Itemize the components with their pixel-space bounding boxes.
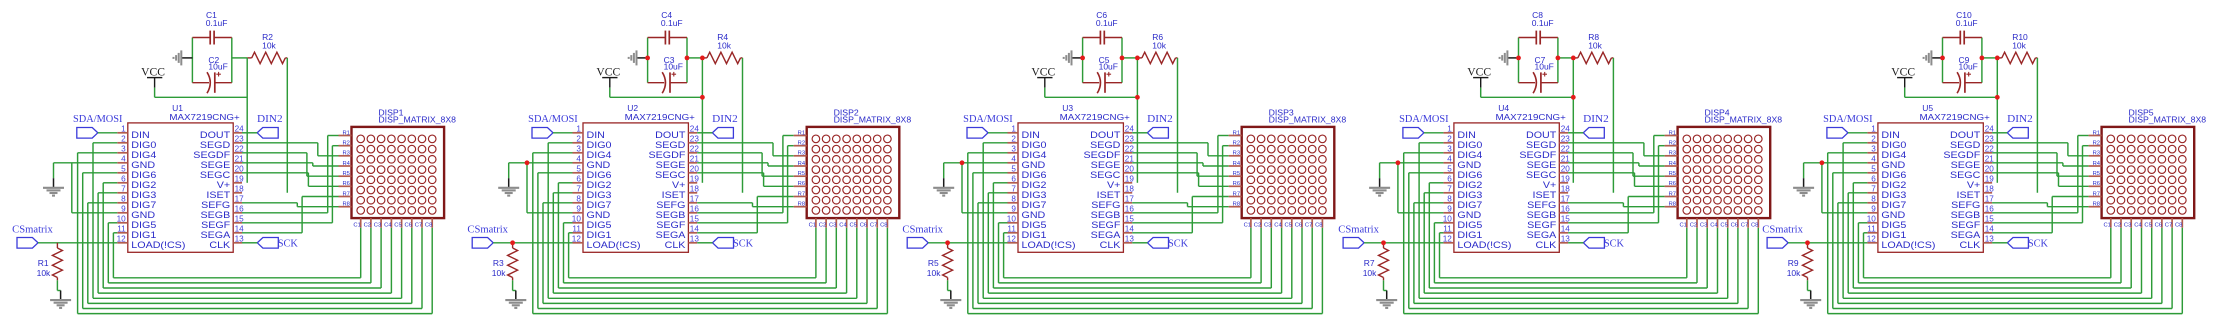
- svg-text:LOAD(!CS): LOAD(!CS): [1457, 240, 1511, 251]
- wire CSmatrix to LOAD(!CS) pin 12: [38, 242, 117, 244]
- junction dots: [1805, 56, 2000, 246]
- svg-text:DIN2: DIN2: [712, 114, 738, 125]
- net flag CSmatrix: [12, 225, 53, 248]
- junction dots: [510, 56, 705, 246]
- svg-text:3: 3: [576, 145, 581, 154]
- svg-text:R4: R4: [1669, 161, 1677, 167]
- svg-text:R5: R5: [1669, 171, 1676, 177]
- IC U2 right pins 24-13 stubs, numbers, names: [649, 125, 700, 251]
- wire CLK pin 13 to SCK: [697, 242, 712, 244]
- capacitor C7 10uF (polarized): [1519, 55, 1558, 93]
- svg-text:C2: C2: [1690, 222, 1697, 228]
- svg-text:DIN2: DIN2: [2007, 114, 2033, 125]
- VCC power symbol: [1031, 66, 1055, 87]
- svg-text:10k: 10k: [37, 268, 51, 278]
- wire CSmatrix to LOAD(!CS) pin 12: [1364, 242, 1443, 244]
- op IC U2 MAX7219CNG+ body: [583, 103, 695, 252]
- decoupling loop wires (VCC/GND) for C10/C9: [1943, 38, 1982, 83]
- svg-text:R3: R3: [493, 258, 504, 268]
- wire DIG5 pin 10 to matrix column: [1858, 223, 2121, 283]
- wire SEGDF to matrix row: [242, 153, 339, 176]
- wire DIG0 pin 2 to matrix column: [983, 143, 1292, 298]
- svg-text:11: 11: [1867, 225, 1876, 234]
- svg-text:1: 1: [1011, 125, 1016, 134]
- wire DOUT pin 24 to DIN2: [1132, 132, 1147, 134]
- svg-text:DIN2: DIN2: [257, 114, 283, 125]
- svg-text:SCK: SCK: [1168, 239, 1189, 250]
- VCC power symbol: [141, 66, 165, 87]
- svg-text:SDA/MOSI: SDA/MOSI: [528, 114, 578, 125]
- svg-text:C3: C3: [374, 222, 381, 228]
- svg-text:SCK: SCK: [733, 239, 754, 250]
- wire SEGDF to matrix row: [1132, 153, 1229, 176]
- net flag DIN2: [257, 114, 283, 138]
- wire SEGE to matrix row: [1568, 163, 1665, 166]
- svg-text:R9: R9: [1788, 258, 1799, 268]
- capacitor C2 10uF (polarized): [192, 55, 231, 93]
- ground (top, beside decoupling caps): [1064, 50, 1083, 65]
- wire V+ rail down to pin 19: [1996, 58, 1998, 183]
- wire DIG3 pin 7 to matrix column: [1424, 193, 1717, 293]
- capacitor C8 0.1uF: [1519, 10, 1558, 44]
- ground (top, beside decoupling caps): [629, 50, 648, 65]
- svg-text:DIN2: DIN2: [1147, 114, 1173, 125]
- svg-text:VCC: VCC: [1031, 66, 1055, 78]
- display DISP1 row pins R1-R8: [339, 130, 352, 207]
- wire R3 to ground: [512, 280, 514, 290]
- svg-text:R8: R8: [2093, 202, 2100, 208]
- display DISP4 DISP_MATRIX_8X8 body: [1678, 107, 1783, 218]
- svg-text:2: 2: [576, 135, 581, 144]
- resistor R5 10k (CS pulldown): [927, 243, 953, 280]
- wire DIG2 pin 6 to matrix column: [558, 183, 836, 288]
- wire DOUT pin 24 to DIN2: [242, 132, 257, 134]
- svg-text:C7: C7: [870, 222, 877, 228]
- wire DIG1 pin 11 to matrix column: [1004, 228, 1251, 278]
- svg-text:DIN2: DIN2: [1583, 114, 1609, 125]
- op IC U5 MAX7219CNG+ body: [1878, 103, 1990, 252]
- wire SEGE to matrix row: [1992, 163, 2089, 166]
- svg-text:MAX7219CNG+: MAX7219CNG+: [1060, 112, 1130, 122]
- wire CLK pin 13 to SCK: [242, 242, 257, 244]
- svg-text:8: 8: [576, 195, 581, 204]
- wire SEGF to matrix row: [697, 146, 794, 223]
- net flag SCK: [257, 238, 298, 250]
- wire DIG7 pin 8 to matrix column: [543, 203, 867, 304]
- svg-text:R7: R7: [1364, 258, 1375, 268]
- svg-text:R7: R7: [1233, 191, 1240, 197]
- wire GND pin 9 tap: [1822, 163, 1868, 213]
- svg-text:C8: C8: [1315, 222, 1322, 228]
- svg-text:R2: R2: [1233, 141, 1240, 147]
- wire ISET down to pin 18: [2036, 58, 2038, 193]
- resistor R10 10k (ISET): [1982, 32, 2038, 63]
- wire SEGF to matrix row: [1992, 146, 2089, 223]
- svg-text:6: 6: [1447, 175, 1452, 184]
- svg-text:C1: C1: [809, 222, 816, 228]
- wire SEFG to matrix row: [1132, 203, 1229, 207]
- svg-text:R5: R5: [1233, 171, 1240, 177]
- resistor R8 10k (ISET): [1558, 32, 1614, 63]
- svg-text:10: 10: [117, 215, 127, 224]
- wire GND pin 9 tap: [962, 163, 1008, 213]
- wire SDA/MOSI to DIN pin 1: [553, 132, 573, 134]
- svg-text:10k: 10k: [1588, 40, 1602, 50]
- svg-text:10k: 10k: [1152, 40, 1166, 50]
- svg-text:MAX7219CNG+: MAX7219CNG+: [169, 112, 239, 122]
- svg-text:R7: R7: [1669, 191, 1676, 197]
- wire DIG7 pin 8 to matrix column: [978, 203, 1302, 304]
- svg-text:C7: C7: [1305, 222, 1312, 228]
- wire DIG4 pin 3 to matrix column: [533, 153, 888, 314]
- svg-text:0.1uF: 0.1uF: [206, 18, 228, 28]
- svg-text:1: 1: [1447, 125, 1452, 134]
- wire SEGDF to matrix row: [1568, 153, 1665, 176]
- svg-text:8: 8: [1871, 195, 1876, 204]
- wire SEGF to matrix row: [1132, 146, 1229, 223]
- svg-text:7: 7: [576, 185, 581, 194]
- wire CLK pin 13 to SCK: [1568, 242, 1583, 244]
- ground (left of IC): [498, 178, 519, 195]
- svg-text:6: 6: [1871, 175, 1876, 184]
- capacitor C4 0.1uF: [648, 10, 687, 44]
- ground (left of IC): [933, 178, 954, 195]
- svg-text:SDA/MOSI: SDA/MOSI: [1399, 114, 1449, 125]
- svg-text:CLK: CLK: [209, 240, 231, 251]
- svg-text:10k: 10k: [1787, 268, 1801, 278]
- wire DOUT pin 24 to DIN2: [1992, 132, 2007, 134]
- svg-text:R8: R8: [798, 202, 805, 208]
- wire DIG1 pin 11 to matrix column: [1864, 228, 2111, 278]
- wire V+ rail down to pin 19: [1136, 58, 1138, 183]
- svg-text:10: 10: [572, 215, 582, 224]
- svg-text:C8: C8: [425, 222, 432, 228]
- svg-text:10k: 10k: [717, 40, 731, 50]
- svg-text:R3: R3: [342, 151, 349, 157]
- net flag DIN2: [1583, 114, 1609, 138]
- VCC power symbol: [596, 66, 620, 87]
- svg-text:CLK: CLK: [1100, 240, 1122, 251]
- display DISP5 row pins R1-R8: [2089, 130, 2102, 207]
- svg-text:C6: C6: [860, 222, 867, 228]
- wire DIG4 pin 3 to matrix column: [78, 153, 433, 314]
- svg-text:C7: C7: [415, 222, 422, 228]
- svg-text:VCC: VCC: [1891, 66, 1915, 78]
- svg-text:0.1uF: 0.1uF: [1532, 18, 1554, 28]
- svg-text:MAX7219CNG+: MAX7219CNG+: [1496, 112, 1566, 122]
- svg-text:SCK: SCK: [2028, 239, 2049, 250]
- svg-text:4: 4: [1871, 155, 1876, 164]
- svg-text:CLK: CLK: [665, 240, 687, 251]
- wire GND pin 9 tap: [527, 163, 573, 213]
- wire GND pin 4 to ground: [509, 163, 573, 178]
- wire SEGF to matrix row: [242, 146, 339, 223]
- net flag SDA/MOSI: [73, 114, 123, 138]
- svg-text:18: 18: [690, 185, 700, 194]
- net flag SDA/MOSI: [1399, 114, 1449, 138]
- svg-text:6: 6: [121, 175, 126, 184]
- wire SEFG to matrix row: [1992, 203, 2089, 207]
- wire VCC to V+ rail: [1481, 88, 1574, 98]
- resistor R9 10k (CS pulldown): [1787, 243, 1813, 280]
- wire CSmatrix to LOAD(!CS) pin 12: [493, 242, 572, 244]
- IC U3 right pins 24-13 stubs, numbers, names: [1084, 125, 1135, 251]
- svg-text:5: 5: [1871, 165, 1876, 174]
- svg-text:7: 7: [1871, 185, 1876, 194]
- wire DIG6 pin 5 to matrix column: [83, 173, 422, 309]
- svg-text:3: 3: [1447, 145, 1452, 154]
- svg-text:C4: C4: [1710, 222, 1718, 228]
- wire DIG5 pin 10 to matrix column: [999, 223, 1262, 283]
- svg-text:2: 2: [121, 135, 126, 144]
- svg-text:2: 2: [1871, 135, 1876, 144]
- svg-text:R6: R6: [1233, 181, 1240, 187]
- ground (top, beside decoupling caps): [1924, 50, 1943, 65]
- svg-text:C2: C2: [364, 222, 371, 228]
- svg-text:R3: R3: [2093, 151, 2100, 157]
- svg-text:CSmatrix: CSmatrix: [1338, 225, 1379, 236]
- svg-text:1: 1: [1871, 125, 1876, 134]
- svg-text:CLK: CLK: [1536, 240, 1558, 251]
- svg-text:9: 9: [1447, 205, 1452, 214]
- resistor R3 10k (CS pulldown): [492, 243, 518, 280]
- wire VCC to V+ rail: [1905, 88, 1998, 98]
- svg-text:C2: C2: [2114, 222, 2121, 228]
- wire SEGA to matrix row: [1568, 197, 1665, 233]
- net flag DIN2: [1147, 114, 1173, 138]
- svg-text:MAX7219CNG+: MAX7219CNG+: [1920, 112, 1990, 122]
- wire DIG6 pin 5 to matrix column: [1409, 173, 1748, 309]
- wire SDA/MOSI to DIN pin 1: [1424, 132, 1444, 134]
- svg-text:7: 7: [121, 185, 126, 194]
- svg-text:19: 19: [235, 175, 245, 184]
- svg-text:8: 8: [121, 195, 126, 204]
- svg-text:10k: 10k: [262, 40, 276, 50]
- display DISP1 column pins C1-C8: [353, 218, 432, 228]
- capacitor C1 0.1uF: [192, 10, 231, 44]
- resistor R1 10k (CS pulldown): [37, 243, 63, 280]
- svg-text:DISP_MATRIX_8X8: DISP_MATRIX_8X8: [2129, 115, 2207, 125]
- display DISP1 LED circles: [357, 135, 436, 214]
- decoupling loop wires (VCC/GND) for C1/C2: [192, 38, 231, 83]
- svg-text:DISP_MATRIX_8X8: DISP_MATRIX_8X8: [1705, 115, 1783, 125]
- wire SEGE to matrix row: [242, 163, 339, 166]
- wire ISET down to pin 18: [1177, 58, 1179, 193]
- svg-text:10uF: 10uF: [1535, 62, 1554, 72]
- display DISP3 LED circles: [1247, 135, 1326, 214]
- wire SEGE to matrix row: [697, 163, 794, 166]
- svg-text:SCK: SCK: [278, 239, 299, 250]
- svg-text:1: 1: [121, 125, 126, 134]
- wire SEFG to matrix row: [242, 203, 339, 207]
- svg-text:LOAD(!CS): LOAD(!CS): [587, 240, 641, 251]
- svg-text:R1: R1: [1233, 130, 1240, 136]
- svg-text:8: 8: [1447, 195, 1452, 204]
- svg-text:C4: C4: [384, 222, 392, 228]
- display DISP2 LED circles: [812, 135, 891, 214]
- svg-text:R3: R3: [1669, 151, 1676, 157]
- wire SEGC to matrix row: [1132, 173, 1229, 187]
- svg-text:5: 5: [1447, 165, 1452, 174]
- net flag CSmatrix: [1762, 225, 1803, 248]
- wire SEGD to matrix row: [1132, 143, 1229, 156]
- svg-text:C6: C6: [2155, 222, 2162, 228]
- svg-text:SDA/MOSI: SDA/MOSI: [963, 114, 1013, 125]
- svg-text:VCC: VCC: [1467, 66, 1491, 78]
- svg-text:R1: R1: [38, 258, 49, 268]
- wire DIG5 pin 10 to matrix column: [1434, 223, 1697, 283]
- svg-text:C1: C1: [353, 222, 360, 228]
- wire DOUT pin 24 to DIN2: [697, 132, 712, 134]
- display DISP1 DISP_MATRIX_8X8 body: [352, 107, 457, 218]
- svg-text:9: 9: [1011, 205, 1016, 214]
- wire DIG0 pin 2 to matrix column: [1419, 143, 1728, 298]
- svg-text:11: 11: [1007, 225, 1016, 234]
- wire SEGDF to matrix row: [697, 153, 794, 176]
- display DISP3 column pins C1-C8: [1244, 218, 1323, 228]
- display DISP4 column pins C1-C8: [1680, 218, 1759, 228]
- svg-text:8: 8: [1011, 195, 1016, 204]
- svg-text:R7: R7: [2093, 191, 2100, 197]
- svg-text:11: 11: [1443, 225, 1452, 234]
- svg-text:7: 7: [1011, 185, 1016, 194]
- wire DIG6 pin 5 to matrix column: [973, 173, 1312, 309]
- wire DIG3 pin 7 to matrix column: [98, 193, 391, 293]
- wire ISET down to pin 18: [286, 58, 288, 193]
- wire DIG6 pin 5 to matrix column: [1833, 173, 2172, 309]
- wire DIG6 pin 5 to matrix column: [538, 173, 877, 309]
- svg-text:2: 2: [1011, 135, 1016, 144]
- svg-text:18: 18: [235, 185, 245, 194]
- IC U5 left pins 1-12 stubs, numbers, names: [1867, 125, 1936, 251]
- decoupling loop wires (VCC/GND) for C8/C7: [1519, 38, 1558, 83]
- svg-text:C1: C1: [2104, 222, 2111, 228]
- resistor R7 10k (CS pulldown): [1363, 243, 1389, 280]
- svg-text:9: 9: [1871, 205, 1876, 214]
- svg-text:C4: C4: [839, 222, 847, 228]
- svg-text:C8: C8: [2175, 222, 2182, 228]
- wire GND pin 9 tap: [1398, 163, 1444, 213]
- svg-text:5: 5: [1011, 165, 1016, 174]
- display DISP2 DISP_MATRIX_8X8 body: [807, 107, 912, 218]
- wire SEGB to matrix row: [1132, 136, 1229, 213]
- wire GND pin 4 to ground: [944, 163, 1008, 178]
- IC U4 right pins 24-13 stubs, numbers, names: [1519, 125, 1570, 251]
- svg-text:3: 3: [121, 145, 126, 154]
- svg-text:R1: R1: [1669, 130, 1676, 136]
- ground (below CS pulldown): [513, 290, 516, 292]
- net flag SCK: [1148, 238, 1189, 250]
- wire V+ rail down to pin 19: [1572, 58, 1574, 183]
- svg-text:C5: C5: [2144, 222, 2151, 228]
- svg-text:5: 5: [576, 165, 581, 174]
- svg-text:10: 10: [1443, 215, 1453, 224]
- wire R5 to ground: [947, 280, 949, 290]
- svg-text:7: 7: [1447, 185, 1452, 194]
- net flag SDA/MOSI: [963, 114, 1013, 138]
- ground (left of IC): [1793, 178, 1814, 195]
- display DISP4 row pins R1-R8: [1665, 130, 1678, 207]
- svg-text:10k: 10k: [1363, 268, 1377, 278]
- svg-text:5: 5: [121, 165, 126, 174]
- ground (below CS pulldown): [1808, 290, 1811, 292]
- svg-text:12: 12: [572, 235, 582, 244]
- svg-text:R4: R4: [2093, 161, 2101, 167]
- wire SEGDF to matrix row: [1992, 153, 2089, 176]
- svg-text:19: 19: [1985, 175, 1995, 184]
- VCC power symbol: [1467, 66, 1491, 87]
- svg-text:10: 10: [1007, 215, 1017, 224]
- wire SEGA to matrix row: [242, 197, 339, 233]
- ground (left of IC): [1369, 178, 1390, 195]
- display DISP3 DISP_MATRIX_8X8 body: [1242, 107, 1347, 218]
- svg-text:R5: R5: [2093, 171, 2100, 177]
- wire SEGA to matrix row: [1992, 197, 2089, 233]
- svg-text:10uF: 10uF: [1959, 62, 1978, 72]
- wire SEGB to matrix row: [1992, 136, 2089, 213]
- svg-text:R7: R7: [342, 191, 349, 197]
- wire V+ rail down to pin 19: [701, 58, 703, 183]
- svg-text:R4: R4: [342, 161, 350, 167]
- svg-text:C2: C2: [1254, 222, 1261, 228]
- svg-text:SCK: SCK: [1604, 239, 1625, 250]
- svg-text:C5: C5: [850, 222, 857, 228]
- svg-text:R2: R2: [342, 141, 349, 147]
- svg-text:4: 4: [576, 155, 581, 164]
- svg-text:LOAD(!CS): LOAD(!CS): [1881, 240, 1935, 251]
- svg-text:10k: 10k: [927, 268, 941, 278]
- svg-text:11: 11: [572, 225, 581, 234]
- capacitor C9 10uF (polarized): [1943, 55, 1982, 93]
- svg-text:C2: C2: [819, 222, 826, 228]
- wire DOUT pin 24 to DIN2: [1568, 132, 1583, 134]
- wire SDA/MOSI to DIN pin 1: [1848, 132, 1868, 134]
- svg-text:DISP_MATRIX_8X8: DISP_MATRIX_8X8: [1269, 115, 1347, 125]
- svg-text:10: 10: [1867, 215, 1877, 224]
- svg-text:R8: R8: [342, 202, 349, 208]
- display DISP5 column pins C1-C8: [2104, 218, 2183, 228]
- svg-text:SDA/MOSI: SDA/MOSI: [1823, 114, 1873, 125]
- wire DIG4 pin 3 to matrix column: [1404, 153, 1759, 314]
- svg-text:0.1uF: 0.1uF: [661, 18, 683, 28]
- ground (below CS pulldown): [57, 290, 60, 292]
- wire DIG4 pin 3 to matrix column: [968, 153, 1323, 314]
- svg-text:R3: R3: [1233, 151, 1240, 157]
- svg-text:9: 9: [576, 205, 581, 214]
- svg-text:R5: R5: [342, 171, 349, 177]
- wire DIG5 pin 10 to matrix column: [564, 223, 827, 283]
- IC U4 left pins 1-12 stubs, numbers, names: [1443, 125, 1512, 251]
- svg-text:9: 9: [121, 205, 126, 214]
- svg-text:C8: C8: [1751, 222, 1758, 228]
- svg-text:C3: C3: [1264, 222, 1271, 228]
- wire SEGA to matrix row: [697, 197, 794, 233]
- wire SDA/MOSI to DIN pin 1: [98, 132, 118, 134]
- svg-text:19: 19: [1561, 175, 1571, 184]
- wire SEGC to matrix row: [1568, 173, 1665, 187]
- wire VCC to V+ rail: [610, 88, 703, 98]
- junction dots: [945, 56, 1140, 246]
- net flag DIN2: [2007, 114, 2033, 138]
- svg-text:19: 19: [690, 175, 700, 184]
- net flag SCK: [1583, 238, 1624, 250]
- wire GND pin 4 to ground: [1804, 163, 1868, 178]
- svg-text:4: 4: [1447, 155, 1452, 164]
- wire R9 to ground: [1807, 280, 1809, 290]
- svg-text:R2: R2: [798, 141, 805, 147]
- svg-text:C6: C6: [405, 222, 412, 228]
- svg-text:C6: C6: [1295, 222, 1302, 228]
